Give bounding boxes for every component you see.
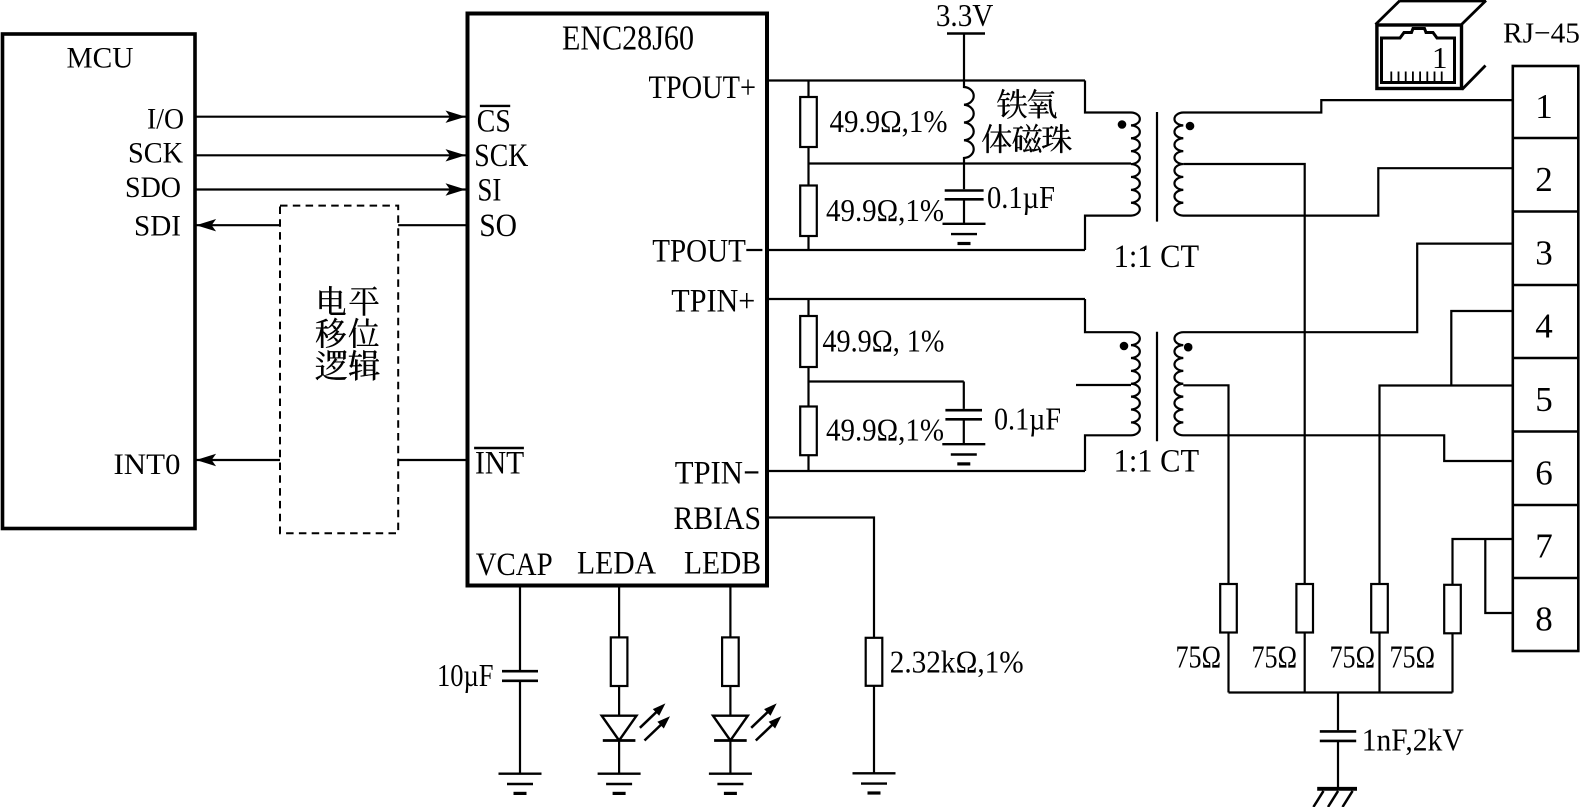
svg-text:49.9Ω,1%: 49.9Ω,1%: [830, 103, 948, 139]
svg-text:49.9Ω,1%: 49.9Ω,1%: [826, 192, 944, 228]
wire TPIN+ rail: [769, 298, 1085, 300]
svg-text:TPIN+: TPIN+: [671, 283, 755, 319]
ferrite bead label line2: [982, 124, 1011, 153]
svg-text:I/O: I/O: [147, 103, 184, 135]
wire termination bottom rail: [1229, 691, 1453, 693]
T1 primary phase dot: [1118, 120, 1127, 129]
svg-text:VCAP: VCAP: [476, 547, 553, 583]
svg-text:1: 1: [1432, 40, 1448, 75]
svg-text:3.3V: 3.3V: [936, 0, 994, 33]
RJ-45 cell divider 3: [1513, 284, 1579, 286]
wire RJ45 pin4 tie: [1451, 311, 1513, 386]
svg-text:SDO: SDO: [125, 172, 181, 204]
ground for D1: [598, 774, 641, 794]
svg-text:1:1 CT: 1:1 CT: [1114, 444, 1200, 480]
resistor R4 49.9 ohm body: [800, 407, 817, 456]
jack icon top-right edge: [1462, 1, 1487, 25]
jack icon top-left edge: [1376, 1, 1401, 25]
resistor R12 75ohm body: [1371, 584, 1388, 633]
svg-text:LEDA: LEDA: [577, 546, 656, 582]
svg-text:1nF,2kV: 1nF,2kV: [1362, 721, 1464, 757]
wire SO to SDI right segment: [398, 224, 465, 226]
resistor R6 body (LEDB): [722, 637, 739, 686]
svg-text:8: 8: [1535, 600, 1553, 639]
svg-text:CS: CS: [477, 104, 511, 140]
T2 primary center tap stub: [1076, 384, 1131, 386]
wire TPOUT- rail: [769, 249, 1085, 251]
IC U1 ENC28J60 block: [468, 14, 768, 586]
LED D2 column wire: [729, 585, 731, 716]
T1 secondary center tap to R11 75ohm: [1183, 164, 1304, 693]
svg-text:LEDB: LEDB: [684, 546, 761, 582]
T2 secondary center tap to R10 75ohm: [1183, 385, 1228, 692]
RJ-45 cell divider 7: [1513, 577, 1579, 579]
capacitor C3 0.1uF: [963, 382, 965, 409]
RJ-45 connector body: [1513, 66, 1579, 651]
svg-text:2: 2: [1535, 160, 1553, 199]
jack icon socket outline: [1382, 29, 1455, 83]
svg-text:2.32kΩ,1%: 2.32kΩ,1%: [890, 643, 1024, 679]
capacitor C2 0.1uF: [963, 164, 965, 190]
jack icon top back edge: [1400, 0, 1486, 2]
resistor R2 column wire: [807, 164, 809, 251]
svg-text:SI: SI: [477, 173, 501, 209]
svg-text:1: 1: [1535, 87, 1553, 126]
svg-text:0.1µF: 0.1µF: [994, 401, 1061, 437]
transformer T1 primary winding: [1085, 81, 1140, 251]
RJ-45 cell divider 6: [1513, 504, 1579, 506]
T2 secondary winding: [1174, 244, 1512, 461]
svg-text:3: 3: [1535, 233, 1553, 272]
ground for D2: [709, 774, 752, 794]
resistor R1 49.9 ohm body: [800, 97, 817, 147]
svg-text:SCK: SCK: [128, 138, 183, 170]
jack icon front face: [1377, 25, 1462, 89]
wire TPOUT center-tap rail: [809, 162, 1132, 164]
wire pins 4/5 net to R12 75ohm: [1380, 386, 1513, 693]
R7 lower wire: [873, 686, 875, 773]
jack icon contact pins: [1390, 72, 1392, 82]
wire INT to INT0 left segment: [196, 459, 280, 461]
svg-text:INT: INT: [475, 446, 524, 482]
wire TPOUT+ rail: [769, 79, 1085, 81]
level shifter text line3 逻辑: [316, 350, 347, 380]
wire I/O to CS: [196, 116, 466, 118]
RJ-45 cell divider 5: [1513, 430, 1579, 432]
RJ-45 cell divider 4: [1513, 357, 1579, 359]
svg-text:TPIN: TPIN: [675, 455, 743, 491]
svg-text:TPOUT: TPOUT: [652, 233, 746, 269]
svg-text:SDI: SDI: [134, 211, 181, 243]
wire SDO to SI: [196, 188, 466, 190]
RJ-45 cell divider 1: [1513, 137, 1579, 139]
resistor R11 75ohm body: [1296, 584, 1313, 633]
T1 secondary phase dot: [1186, 122, 1195, 131]
svg-text:TPOUT+: TPOUT+: [649, 70, 757, 106]
svg-text:75Ω: 75Ω: [1330, 639, 1376, 675]
wire INT to INT0 right segment: [398, 459, 465, 461]
svg-text:MCU: MCU: [67, 43, 134, 75]
svg-text:75Ω: 75Ω: [1390, 639, 1436, 675]
capacitor C1 10uF at VCAP: [519, 585, 521, 670]
svg-text:RJ−45: RJ−45: [1503, 18, 1580, 50]
svg-text:49.9Ω,1%: 49.9Ω,1%: [826, 412, 944, 448]
resistor R4 column wire: [807, 382, 809, 472]
resistor R1 column wire: [807, 81, 809, 164]
svg-text:ENC28J60: ENC28J60: [562, 19, 694, 58]
resistor R13 75ohm body: [1444, 585, 1461, 634]
MCU block: [3, 34, 196, 529]
svg-text:75Ω: 75Ω: [1252, 639, 1298, 675]
svg-text:SCK: SCK: [474, 138, 528, 174]
svg-text:75Ω: 75Ω: [1176, 639, 1222, 675]
svg-text:RBIAS: RBIAS: [674, 501, 762, 537]
T1 secondary winding: [1174, 100, 1512, 216]
level shifter text line1 电平: [320, 286, 346, 315]
resistor R5 body (LEDA): [611, 637, 628, 686]
wire RBIAS: [769, 518, 874, 638]
svg-text:4: 4: [1535, 307, 1553, 346]
resistor R3 column wire: [807, 299, 809, 382]
T2 core: [1156, 332, 1158, 442]
T2 primary phase dot: [1120, 342, 1129, 351]
ground for C1: [499, 774, 542, 794]
level shifter block (dashed): [280, 206, 398, 534]
resistor R3 49.9 ohm body: [800, 316, 817, 367]
LED D1 lower wire: [618, 741, 620, 774]
wire RJ45 pin8 tie: [1485, 539, 1513, 613]
resistor R7 2.32k body: [866, 638, 883, 686]
RJ-45 cell divider 2: [1513, 210, 1579, 212]
wire TPIN- rail: [769, 470, 1085, 472]
level shifter text line2 移位: [316, 318, 346, 348]
svg-text:1:1 CT: 1:1 CT: [1114, 239, 1200, 275]
T2 secondary phase dot: [1184, 343, 1193, 352]
svg-text:49.9Ω, 1%: 49.9Ω, 1%: [822, 322, 944, 358]
LED D2 lower wire: [729, 741, 731, 774]
wire SCK to SCK: [196, 154, 466, 156]
ground for C2: [943, 224, 986, 244]
svg-text:7: 7: [1535, 527, 1553, 566]
ferrite bead label 铁氧体磁珠 line1: [997, 89, 1026, 119]
LED D2 symbol: [713, 716, 748, 741]
svg-text:5: 5: [1535, 380, 1553, 419]
LED D1 symbol: [602, 716, 637, 741]
svg-text:0.1µF: 0.1µF: [987, 179, 1055, 215]
wire pins 7/8 net to R13 75ohm: [1453, 539, 1513, 693]
resistor R10 75ohm body: [1220, 584, 1237, 633]
ground for R7: [853, 773, 896, 793]
wire TPIN middle rail: [809, 380, 964, 382]
chassis ground: [1317, 787, 1357, 791]
svg-text:SO: SO: [479, 208, 517, 244]
LED D1 column wire: [618, 585, 620, 716]
svg-text:INT0: INT0: [114, 449, 181, 481]
ground for C3: [942, 444, 985, 464]
resistor R2 49.9 ohm body: [800, 186, 817, 237]
ferrite bead L1: [964, 81, 974, 164]
svg-text:10µF: 10µF: [437, 657, 494, 693]
T1 core: [1156, 112, 1158, 222]
wire SO to SDI left segment: [196, 224, 280, 226]
svg-text:6: 6: [1535, 453, 1553, 492]
transformer T2 primary winding: [1085, 299, 1140, 471]
jack icon bottom-right edge: [1462, 66, 1486, 90]
capacitor C4 1nF 2kV: [1337, 693, 1339, 731]
